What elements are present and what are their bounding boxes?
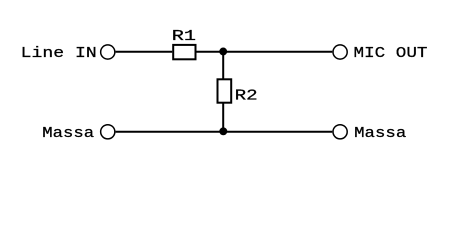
svg-text:Line IN: Line IN: [21, 45, 97, 62]
wire Massa rail: [116, 131, 333, 133]
svg-text:MIC OUT: MIC OUT: [354, 45, 428, 62]
junction node top: [219, 48, 227, 56]
svg-text:Massa: Massa: [354, 125, 406, 142]
terminal Line IN: [101, 45, 115, 59]
wire R1 to MIC OUT terminal: [197, 51, 333, 53]
wire Line IN terminal to R1: [116, 51, 173, 53]
svg-text:R2: R2: [235, 88, 258, 105]
svg-text:Massa: Massa: [42, 125, 94, 142]
wire junction to R2: [222, 52, 224, 79]
wire R2 to bottom rail: [222, 103, 224, 132]
resistor R1: [173, 45, 195, 59]
junction node bottom: [219, 127, 227, 135]
terminal Massa right: [333, 125, 347, 139]
terminal Massa left: [101, 125, 115, 139]
svg-text:R1: R1: [172, 28, 196, 45]
resistor R2: [218, 79, 232, 102]
terminal MIC OUT: [333, 45, 347, 59]
